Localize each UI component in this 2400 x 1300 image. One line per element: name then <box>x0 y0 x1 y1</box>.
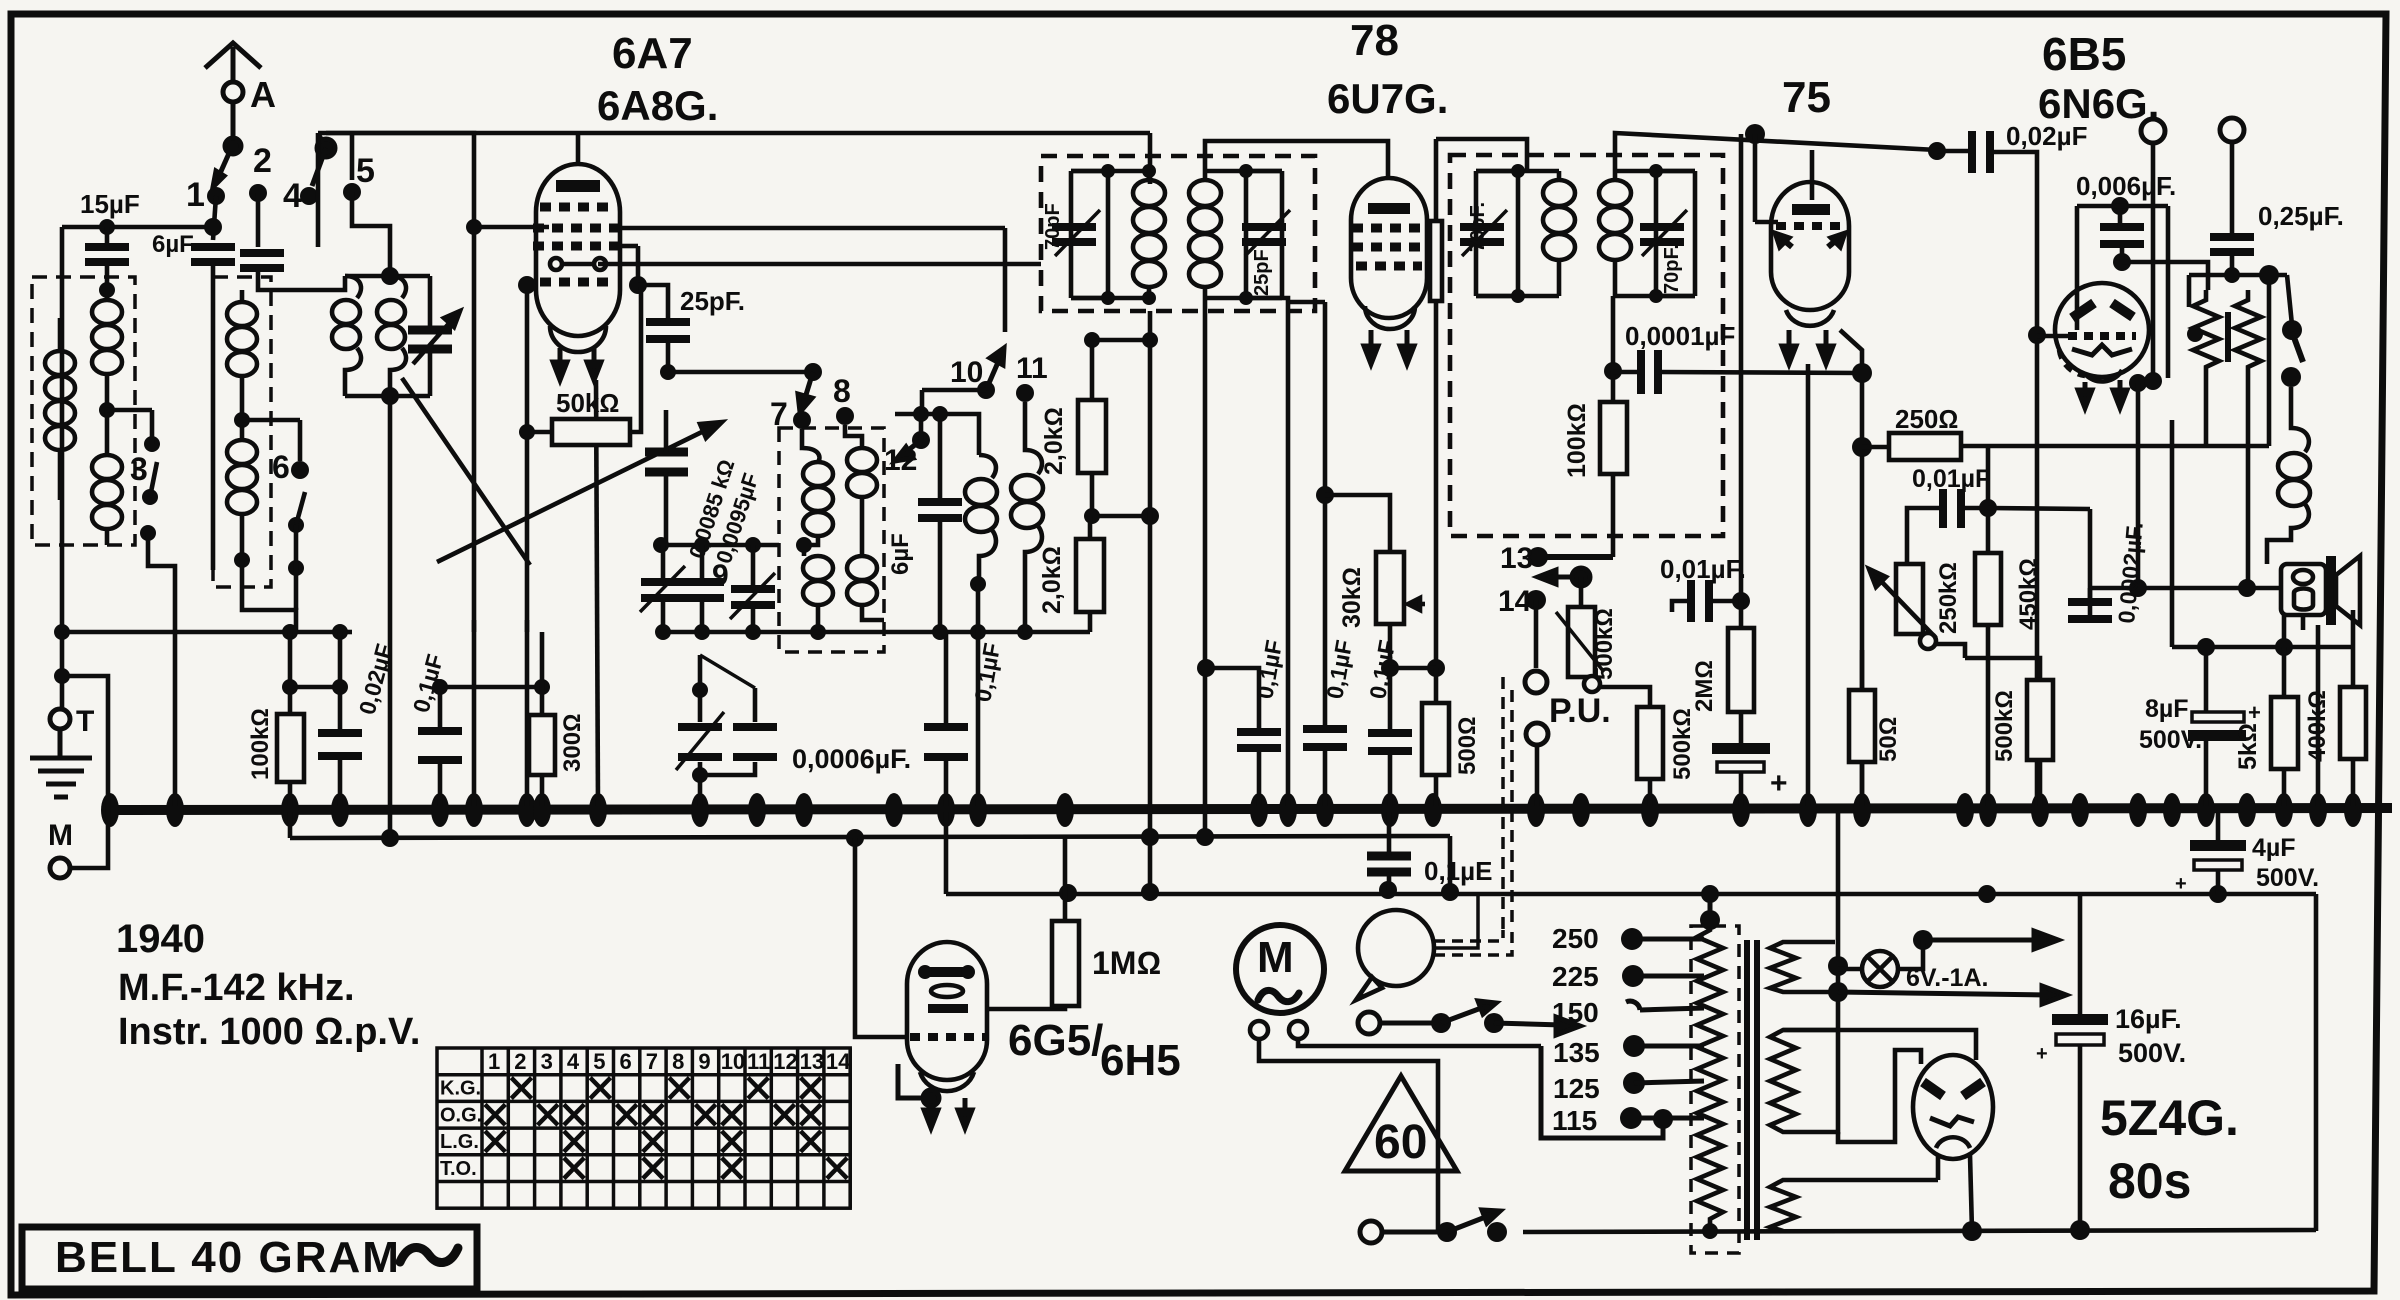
svg-text:0,01µF.: 0,01µF. <box>1660 554 1746 584</box>
transformer core <box>1744 940 1750 1240</box>
resistor 100k IF2 <box>1600 402 1627 474</box>
5Z4G plates <box>1923 1082 1983 1096</box>
earth ground <box>30 729 92 797</box>
svg-text:2: 2 <box>514 1049 526 1074</box>
IF1 secondary coil <box>1189 171 1221 298</box>
svg-text:M: M <box>1257 933 1294 982</box>
resistor 2.0k upper <box>1092 340 1150 516</box>
resistor 5k <box>2282 647 2287 697</box>
field coil <box>2267 387 2310 564</box>
mains selector labels <box>1552 923 1600 1136</box>
wire contact1 down <box>213 133 390 276</box>
HV winding <box>1770 1030 1838 1132</box>
svg-text:4µF: 4µF <box>2252 834 2296 862</box>
svg-text:3: 3 <box>130 451 148 487</box>
band switch arm from antenna <box>213 138 241 187</box>
svg-text:Instr. 1000 Ω.p.V.: Instr. 1000 Ω.p.V. <box>118 1011 420 1053</box>
capacitor 0,02uF coupling <box>1928 142 1946 160</box>
svg-text:O.G.: O.G. <box>440 1104 482 1126</box>
capacitor 0,1uF line filter <box>1367 856 1411 872</box>
contact 13 <box>1528 547 1548 567</box>
svg-text:10: 10 <box>721 1049 745 1074</box>
svg-text:11: 11 <box>1016 352 1048 385</box>
speaker return lines <box>2303 615 2318 806</box>
pickup head <box>1358 910 1434 986</box>
75 plate to top line <box>1810 150 1815 200</box>
wire 12 to osc rail <box>895 414 979 455</box>
IF1 trimmer cap right <box>1246 171 1282 298</box>
magic eye 6G5 envelope <box>907 942 987 1080</box>
bottom return line <box>1523 1230 2316 1232</box>
svg-text:14: 14 <box>826 1049 851 1074</box>
5Z4G filament <box>1930 1117 1974 1126</box>
svg-text:2MΩ: 2MΩ <box>1691 660 1718 712</box>
svg-text:6U7G.: 6U7G. <box>1327 75 1448 122</box>
svg-text:10: 10 <box>950 356 983 389</box>
svg-text:225: 225 <box>1552 961 1599 992</box>
78 grid dashes <box>1352 228 1426 266</box>
capacitor 0.02uF <box>318 733 362 756</box>
svg-text:8: 8 <box>672 1049 684 1074</box>
svg-text:13: 13 <box>800 1049 824 1074</box>
divider center bar <box>2225 312 2231 362</box>
transformer primary winding <box>1697 920 1723 1231</box>
svg-text:+: + <box>1770 767 1788 800</box>
svg-text:500V.: 500V. <box>2256 864 2319 892</box>
svg-text:4: 4 <box>567 1049 580 1074</box>
svg-text:70pF: 70pF <box>1042 203 1064 250</box>
svg-text:115: 115 <box>1552 1105 1597 1136</box>
wire contact5 down to grid line <box>326 133 549 632</box>
svg-text:6: 6 <box>272 449 290 485</box>
svg-text:125: 125 <box>1553 1073 1600 1104</box>
svg-text:25pF.: 25pF. <box>680 286 745 316</box>
gang line diagonal <box>402 378 530 565</box>
electrolytic 16uF 500V <box>2078 894 2083 1014</box>
capacitor 0.1uF <box>440 687 542 806</box>
svg-text:13: 13 <box>1500 542 1533 575</box>
resistor 100k <box>277 714 304 782</box>
IF1 trimmer cap left <box>1071 171 1108 298</box>
junction 78 plate feed <box>1381 659 1445 677</box>
capacitor 0,1uF (a) <box>1206 668 1259 806</box>
svg-text:M.F.-142 kHz.: M.F.-142 kHz. <box>118 967 355 1009</box>
IF2 trimmer cap right <box>1656 171 1695 296</box>
wire AVC rail y632 <box>340 630 352 635</box>
svg-text:T.O.: T.O. <box>440 1158 477 1180</box>
svg-text:9: 9 <box>698 1049 710 1074</box>
svg-text:6H5: 6H5 <box>1100 1036 1181 1085</box>
svg-text:T: T <box>76 705 94 738</box>
svg-text:250: 250 <box>1552 923 1599 954</box>
coil C <box>965 455 997 584</box>
IF2 trimmer cap left <box>1476 171 1518 296</box>
75 cathode line <box>1806 364 1811 806</box>
75 diode plates <box>1776 234 1844 247</box>
contact 14 <box>1526 590 1546 610</box>
heater bus vertical <box>1836 812 1841 1085</box>
svg-text:8µF: 8µF <box>2145 695 2189 723</box>
AVC line left <box>62 630 340 635</box>
tube 75 envelope <box>1771 182 1849 326</box>
tube 6A7 6A8G envelope <box>536 164 620 352</box>
2nd coil pack dashed box <box>213 277 271 587</box>
svg-text:11: 11 <box>747 1049 770 1074</box>
arm arrow to 13/14 <box>1538 568 1590 586</box>
svg-text:6µF: 6µF <box>152 231 194 258</box>
resistor 500k to bus <box>1637 707 1663 779</box>
antenna primary coil <box>45 318 75 500</box>
output terminal 2 <box>2220 118 2244 142</box>
svg-text:1940: 1940 <box>116 917 205 961</box>
svg-text:70pF.: 70pF. <box>1467 202 1489 252</box>
capacitor 0,1uF (c) <box>1388 624 1393 806</box>
resistor 300ohm <box>540 632 545 806</box>
svg-text:50kΩ: 50kΩ <box>556 388 619 418</box>
band2 rails <box>345 276 430 396</box>
svg-text:30kΩ: 30kΩ <box>1338 567 1366 628</box>
pickup shielded cable <box>1434 894 1512 955</box>
potentiometer 500k (volume) <box>1579 577 1584 607</box>
screen feed vertical <box>1148 311 1153 891</box>
switch contact 11 <box>1016 384 1034 402</box>
mains switch lower <box>1360 1221 1382 1243</box>
transformer dashed box <box>1691 926 1739 1253</box>
svg-text:5: 5 <box>356 152 375 190</box>
switch contact 12 <box>912 431 930 449</box>
selector tap leads <box>1631 939 1704 1118</box>
zigzag resistor right <box>2235 290 2261 378</box>
svg-text:14: 14 <box>1498 585 1532 618</box>
tracking variable cap 3 <box>731 589 775 605</box>
rectifier winding 5V <box>1770 1180 1938 1231</box>
svg-text:5Z4G.: 5Z4G. <box>2100 1090 2239 1146</box>
svg-text:250kΩ: 250kΩ <box>1935 562 1962 634</box>
gang line diagonal 2 <box>437 422 722 562</box>
switch contact 3 <box>140 436 160 541</box>
svg-text:6N6G.: 6N6G. <box>2038 80 2159 127</box>
6B5 cathode junction <box>2129 372 2162 392</box>
antenna secondary coil <box>92 290 122 408</box>
svg-text:0,01µF: 0,01µF <box>1912 465 1990 493</box>
IF1 internal rails <box>1071 141 1388 838</box>
svg-text:P.U.: P.U. <box>1549 692 1611 730</box>
6B5 plate bars <box>2072 303 2133 318</box>
svg-text:2: 2 <box>253 142 272 180</box>
top rail to 6A7 and IF1 <box>318 133 1150 184</box>
zigzag resistor left (hum pot) <box>2193 290 2219 378</box>
svg-text:50Ω: 50Ω <box>1875 717 1902 762</box>
svg-text:6µF: 6µF <box>887 533 914 575</box>
svg-text:80s: 80s <box>2108 1153 2191 1209</box>
6B5 arrows <box>2078 380 2127 408</box>
6B5 cathode W <box>2072 345 2132 355</box>
title box BELL 40 GRAM <box>22 1227 477 1289</box>
antenna coil pack dashed box <box>32 277 135 545</box>
svg-text:6: 6 <box>620 1049 632 1074</box>
svg-text:1: 1 <box>186 176 205 214</box>
svg-text:0,0006µF.: 0,0006µF. <box>792 744 911 774</box>
svg-text:12: 12 <box>773 1049 797 1074</box>
osc coil F <box>845 425 884 620</box>
tracking caps top rail <box>661 543 779 548</box>
bus junction dots <box>101 793 2362 827</box>
heater winding 6V <box>1770 942 1835 992</box>
svg-text:6G5/: 6G5/ <box>1008 1016 1103 1065</box>
svg-text:500kΩ: 500kΩ <box>1669 708 1696 780</box>
svg-text:4: 4 <box>283 177 302 215</box>
svg-text:16µF.: 16µF. <box>2115 1004 2182 1034</box>
svg-text:300Ω: 300Ω <box>559 714 586 772</box>
voice coil line <box>2090 586 2281 591</box>
resistor 400k <box>2351 647 2356 687</box>
motor wiring <box>1259 1039 1541 1231</box>
svg-text:+: + <box>2036 1043 2048 1065</box>
T terminal <box>50 709 70 729</box>
switch contact 2 <box>249 184 267 202</box>
electrolytic 4uF 500V <box>2190 840 2246 851</box>
svg-text:A: A <box>250 74 276 115</box>
svg-text:+: + <box>2175 873 2187 895</box>
svg-text:60: 60 <box>1374 1116 1427 1169</box>
svg-text:1MΩ: 1MΩ <box>1092 945 1161 981</box>
resistor 1M <box>987 837 1065 1009</box>
tube 78 6U7G envelope <box>1351 178 1427 329</box>
svg-text:500Ω: 500Ω <box>1454 717 1481 775</box>
svg-text:5: 5 <box>593 1049 605 1074</box>
capacitor (switch2 series) <box>240 253 284 268</box>
svg-text:450kΩ: 450kΩ <box>2015 558 2042 630</box>
wire 15uF top rail <box>62 227 213 709</box>
potentiometer 250k <box>1896 564 1923 634</box>
band2 coil b <box>377 276 406 396</box>
output terminal 1 <box>2141 119 2165 143</box>
tube 5Z4G envelope <box>1913 1055 1993 1159</box>
75 diode return line <box>1840 330 1862 806</box>
6G5 grid dashes <box>910 1033 985 1041</box>
wire M to bus <box>62 676 108 868</box>
svg-text:6V.-1A.: 6V.-1A. <box>1906 964 1988 992</box>
75 anode bar <box>1792 204 1830 215</box>
75 cathode arrows <box>1782 330 1833 364</box>
capacitor 0,1uF osc bypass <box>944 632 949 806</box>
svg-text:2,0kΩ: 2,0kΩ <box>1040 407 1068 475</box>
tube 6B5 envelope <box>2055 283 2149 381</box>
5Z4G leads <box>1938 1155 1972 1231</box>
switch contact 5 <box>343 183 361 201</box>
switch contact 1 <box>207 187 225 205</box>
6G5 grid feed <box>855 838 907 1037</box>
resistor 500ohm <box>1434 668 1439 703</box>
6A7 cathode arrows <box>553 348 601 380</box>
osc bottom rail <box>660 630 1090 635</box>
svg-text:5kΩ: 5kΩ <box>2234 723 2262 770</box>
svg-text:K.G.: K.G. <box>440 1078 481 1100</box>
svg-text:0,25µF.: 0,25µF. <box>2258 201 2344 231</box>
svg-text:7: 7 <box>646 1049 658 1074</box>
pilot lamp <box>1862 951 1898 987</box>
svg-text:15µF: 15µF <box>80 189 140 219</box>
IF1 primary coil <box>1133 171 1165 298</box>
divider top rail <box>2189 275 2292 446</box>
wire y687 branch <box>290 632 340 806</box>
selector link wire <box>1541 1046 1663 1138</box>
resistor 2.0k lower <box>1088 516 1093 632</box>
6G5 cathode arrows <box>923 1090 972 1128</box>
heater arrows <box>1838 931 2066 1004</box>
P.U. shielded leads dashed <box>1503 677 1512 930</box>
cathode rail y446 <box>1961 444 2269 449</box>
loudspeaker <box>2281 564 2326 615</box>
IF2 secondary coil <box>1599 171 1631 296</box>
switch contact 7 <box>793 411 811 429</box>
gramophone motor M~ <box>1236 925 1324 1013</box>
IF transformer 2 dashed box <box>1450 155 1723 536</box>
switch contact 4 <box>300 187 318 205</box>
tracking variable cap 1 <box>641 582 685 598</box>
capacitor 0,1uF (b) <box>1288 302 1325 806</box>
svg-text:500kΩ: 500kΩ <box>1991 690 2018 762</box>
antenna A <box>205 43 261 138</box>
78 cathode arrows <box>1364 330 1414 364</box>
mains rail y894 <box>946 892 2316 897</box>
svg-text:75: 75 <box>1782 73 1831 122</box>
band switch table <box>437 1048 850 1208</box>
grid4 node wiring <box>527 228 1041 430</box>
mains switch upper <box>1358 1012 1380 1034</box>
selector contact dots <box>1620 928 1673 1129</box>
battery electrolytic <box>1739 712 1744 743</box>
svg-text:100kΩ: 100kΩ <box>1563 403 1591 478</box>
IF2 rails and feeds <box>1476 133 1937 371</box>
osc section coil A <box>227 290 257 560</box>
6A7 grid dash rows <box>533 207 622 282</box>
IF2 primary coil <box>1543 171 1575 296</box>
capacitor 6uF <box>938 414 943 632</box>
frequency triangle 60 <box>1345 1076 1457 1171</box>
wire contact2 branch <box>258 133 352 290</box>
resistor 500k (to bus right) <box>1965 658 2040 680</box>
svg-text:M: M <box>48 819 73 852</box>
svg-text:2,0kΩ: 2,0kΩ <box>1038 546 1066 614</box>
svg-text:3: 3 <box>541 1049 553 1074</box>
svg-text:500kΩ: 500kΩ <box>1591 608 1618 680</box>
speaker switch <box>2281 320 2302 387</box>
svg-text:BELL 40 GRAM: BELL 40 GRAM <box>55 1233 401 1282</box>
78 anode bar <box>1368 203 1410 214</box>
resistor 450k <box>1975 553 2001 625</box>
6B5 grid dashes <box>2068 332 2136 340</box>
ground bus <box>103 808 2392 810</box>
svg-text:250Ω: 250Ω <box>1895 404 1958 434</box>
svg-text:8: 8 <box>833 373 851 409</box>
svg-text:6A8G.: 6A8G. <box>597 82 718 129</box>
resistor 2M <box>1739 134 1744 628</box>
antenna tertiary coil <box>92 410 122 545</box>
tracking cap 2 <box>680 582 724 598</box>
resistor 30k <box>1316 486 1334 504</box>
resistor 50ohm <box>1860 650 1865 690</box>
osc coil dashed box <box>779 428 884 652</box>
svg-text:0,006µF.: 0,006µF. <box>2076 171 2176 201</box>
svg-text:9: 9 <box>712 559 729 592</box>
svg-text:70pF.: 70pF. <box>1661 244 1683 294</box>
svg-text:6A7: 6A7 <box>612 29 693 78</box>
78 plate bar and leads <box>1427 139 1527 668</box>
svg-text:6B5: 6B5 <box>2042 28 2126 80</box>
6G5 target bar <box>925 967 968 977</box>
switch contact 10 <box>977 381 995 399</box>
heater rail y838 <box>290 836 1450 838</box>
svg-text:135: 135 <box>1553 1037 1600 1068</box>
band switch dot and arm to contact 4 <box>312 139 335 186</box>
resistor row top rail <box>2172 420 2353 712</box>
svg-text:0,1µE: 0,1µE <box>1424 856 1492 886</box>
band2 variable cap <box>408 330 452 349</box>
svg-text:1: 1 <box>488 1049 500 1074</box>
coil D <box>1011 402 1043 632</box>
svg-text:L.G.: L.G. <box>440 1131 479 1153</box>
6A7 anode bar <box>556 180 600 192</box>
svg-text:25pF: 25pF <box>1251 249 1273 296</box>
svg-text:0,0001µF: 0,0001µF <box>1625 321 1735 351</box>
75 grid dashes <box>1776 222 1844 230</box>
svg-text:500V.: 500V. <box>2118 1038 2186 1068</box>
osc coil E <box>802 429 833 632</box>
svg-text:78: 78 <box>1350 16 1399 65</box>
switch contact 8 <box>836 407 854 425</box>
padder variable cap <box>645 452 688 472</box>
svg-text:+: + <box>2248 700 2261 725</box>
svg-text:100kΩ: 100kΩ <box>247 708 274 780</box>
6U7G cathode line <box>1282 298 1288 806</box>
switch contact 6 <box>288 461 309 576</box>
band2 coil a <box>332 276 361 396</box>
capacitor 0,0002uF <box>1988 508 2090 620</box>
IF transformer 1 dashed box <box>1041 156 1315 311</box>
